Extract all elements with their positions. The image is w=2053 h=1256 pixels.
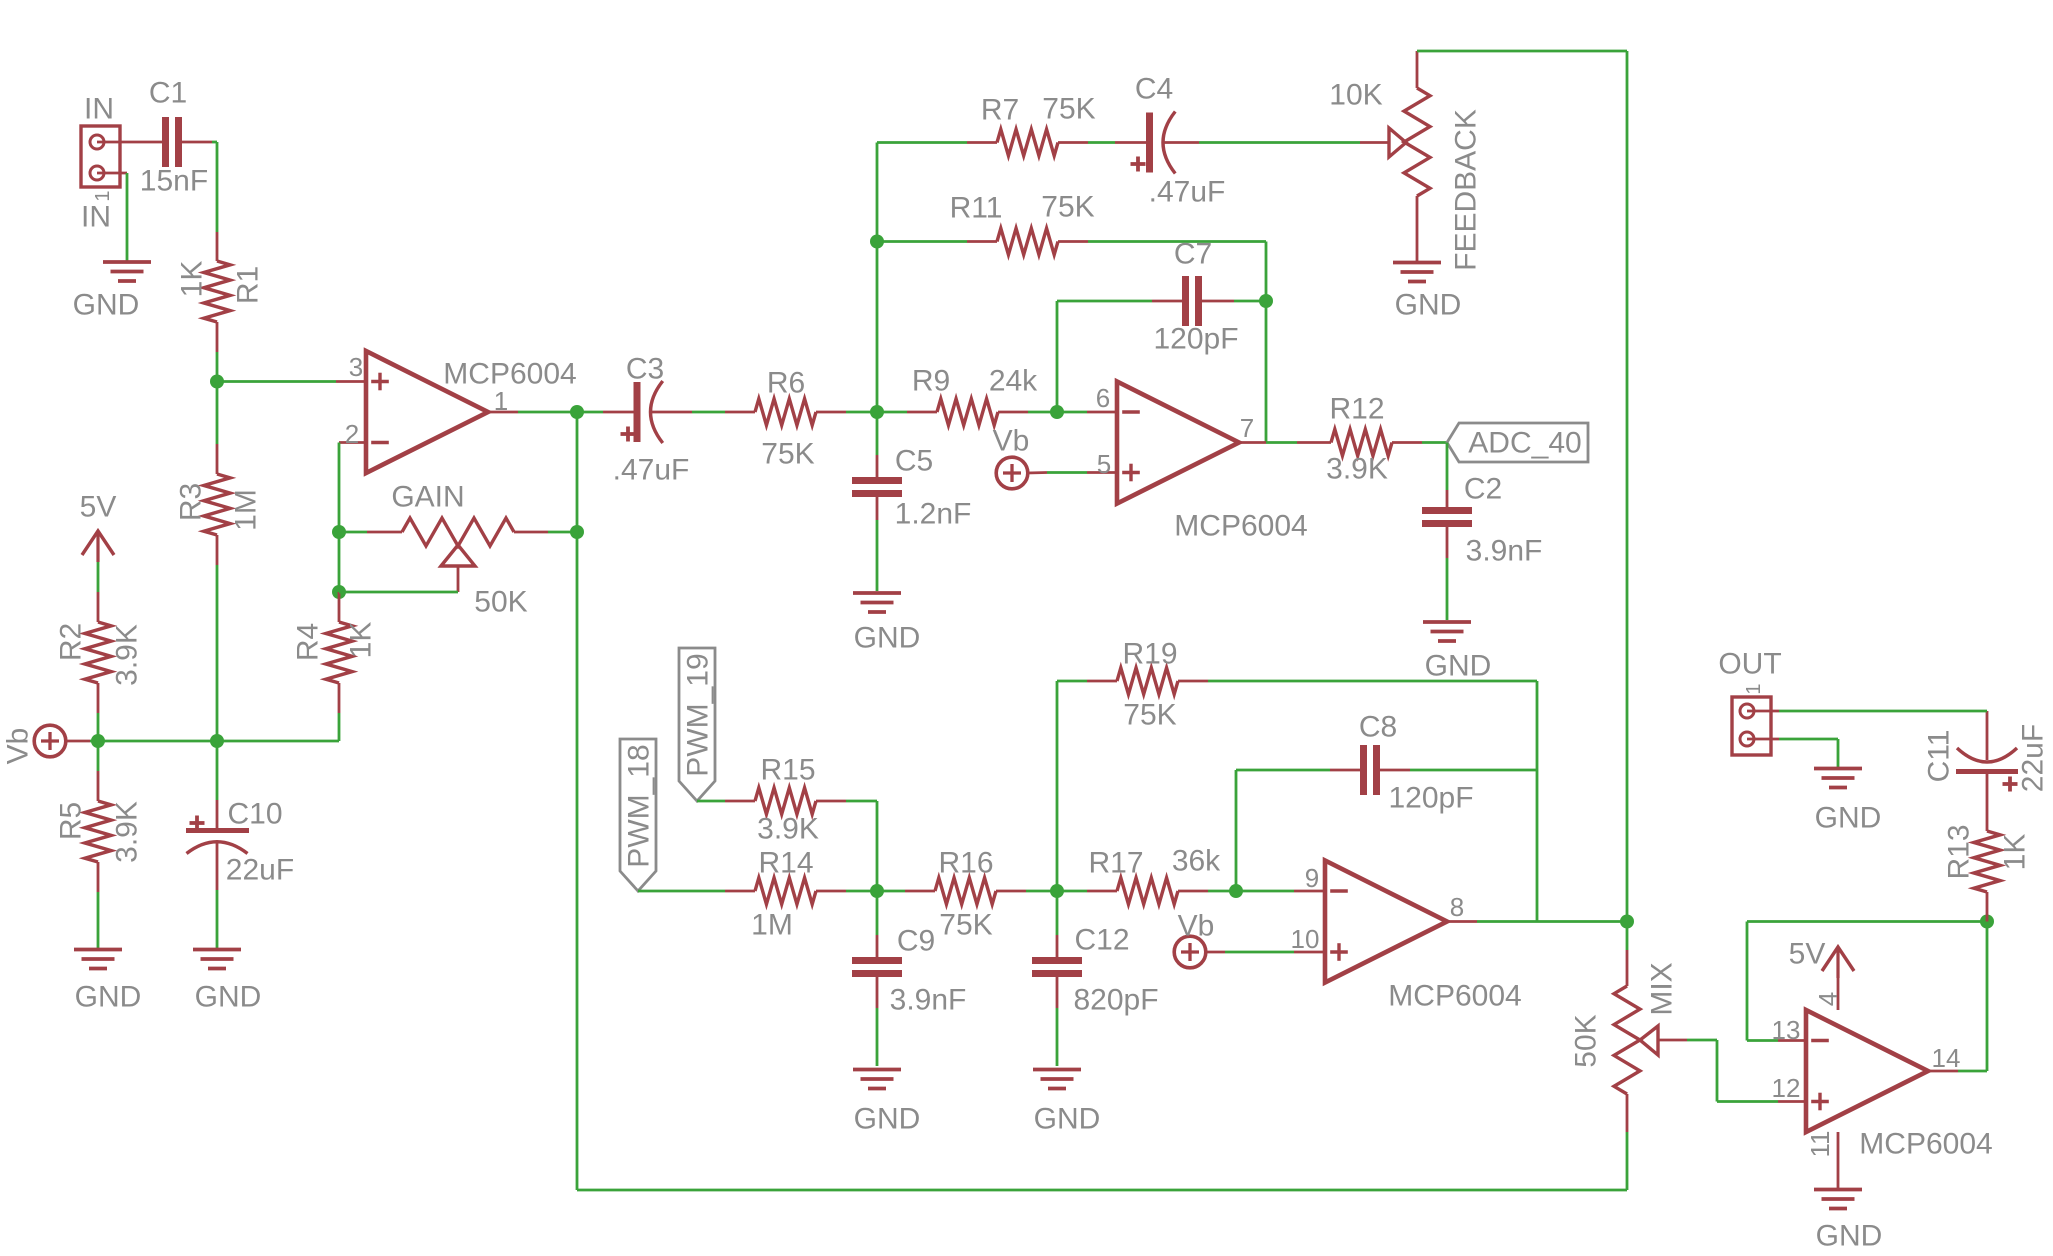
ground under 10K pot — [1393, 263, 1461, 322]
wire pin14 out — [1958, 922, 1987, 1072]
ground under OUT — [1814, 769, 1881, 835]
wire — [1779, 710, 1987, 713]
svg-text:GAIN: GAIN — [391, 481, 464, 514]
ground under C2 — [1423, 622, 1491, 683]
svg-text:GND: GND — [1395, 289, 1462, 322]
wire — [1536, 681, 1539, 922]
svg-text:3.9K: 3.9K — [111, 801, 144, 863]
capacitor C7 — [1057, 238, 1266, 356]
svg-text:1K: 1K — [345, 622, 378, 659]
capacitor C4 — [1088, 73, 1225, 209]
node junction — [210, 734, 224, 748]
net flag ADC_40 — [1447, 423, 1588, 462]
supply 5V at pin4 — [1789, 938, 1854, 1011]
svg-text:5V: 5V — [1789, 938, 1826, 971]
svg-text:C3: C3 — [626, 353, 664, 386]
resistor R16 — [877, 847, 1057, 942]
wire — [877, 240, 967, 243]
svg-text:MCP6004: MCP6004 — [443, 358, 576, 391]
resistor R13 — [1943, 773, 2032, 922]
svg-text:12: 12 — [1772, 1073, 1801, 1103]
svg-text:GND: GND — [73, 289, 140, 322]
supply Vb left — [2, 725, 91, 764]
svg-text:GND: GND — [1816, 1220, 1883, 1253]
svg-text:C4: C4 — [1135, 73, 1173, 106]
node junction — [1620, 915, 1634, 929]
svg-text:R2: R2 — [55, 623, 88, 661]
supply 5V — [80, 491, 117, 593]
svg-text:R5: R5 — [55, 802, 88, 840]
svg-text:ADC_40: ADC_40 — [1468, 427, 1581, 460]
svg-text:C11: C11 — [1923, 730, 1956, 783]
svg-text:C7: C7 — [1174, 238, 1212, 271]
connector OUT (J2) — [1718, 648, 1781, 756]
wire long left vertical — [576, 412, 579, 1190]
node junction — [1050, 884, 1064, 898]
supply Vb at pin5 — [993, 425, 1087, 489]
wire opamp1 out — [518, 411, 577, 414]
wire pin6 — [1057, 411, 1087, 414]
svg-text:R3: R3 — [175, 483, 208, 521]
svg-text:C8: C8 — [1359, 711, 1397, 744]
svg-text:.47uF: .47uF — [1149, 176, 1226, 209]
resistor R15 — [697, 754, 877, 892]
svg-text:IN: IN — [81, 201, 111, 234]
svg-text:R11: R11 — [950, 192, 1003, 225]
wire — [216, 352, 219, 382]
svg-text:GND: GND — [1034, 1103, 1101, 1136]
wire — [846, 411, 877, 414]
svg-text:C9: C9 — [897, 925, 935, 958]
svg-text:75K: 75K — [1042, 93, 1095, 126]
wire — [1422, 441, 1447, 444]
svg-text:C10: C10 — [227, 798, 282, 831]
capacitor C9 — [852, 891, 966, 1066]
op-amp U1C MCP6004 — [1291, 861, 1522, 1013]
svg-text:FEEDBACK: FEEDBACK — [1450, 109, 1483, 271]
svg-text:GND: GND — [75, 981, 142, 1014]
wire bottom — [577, 1189, 1627, 1192]
svg-text:Vb: Vb — [1178, 910, 1215, 943]
svg-text:8: 8 — [1450, 892, 1464, 922]
resistor R2 — [55, 592, 144, 713]
wire — [1266, 441, 1297, 444]
svg-text:75K: 75K — [1041, 191, 1094, 224]
ground under IN — [73, 173, 151, 322]
capacitor C10 — [186, 741, 294, 890]
svg-text:R14: R14 — [758, 847, 813, 880]
potentiometer FEEDBACK 10K — [1329, 51, 1482, 271]
svg-text:Vb: Vb — [2, 728, 35, 765]
wire pin3 — [217, 380, 336, 383]
svg-text:75K: 75K — [1123, 699, 1176, 732]
resistor R9 — [877, 365, 1057, 426]
ground under C9 — [853, 1070, 920, 1136]
svg-text:6: 6 — [1096, 383, 1110, 413]
wire — [1477, 920, 1627, 923]
potentiometer MIX 50K — [1570, 922, 1688, 1191]
resistor R14 — [638, 847, 877, 942]
ground under C5 — [853, 593, 920, 655]
wire — [216, 565, 219, 741]
svg-text:R12: R12 — [1329, 393, 1384, 426]
wire — [1088, 242, 1266, 302]
svg-text:R6: R6 — [767, 367, 805, 400]
wire — [692, 411, 725, 414]
svg-text:C2: C2 — [1464, 473, 1502, 506]
svg-text:1K: 1K — [1999, 834, 2032, 871]
svg-text:75K: 75K — [939, 909, 992, 942]
svg-text:14: 14 — [1932, 1043, 1961, 1073]
svg-text:GND: GND — [854, 622, 921, 655]
node junction — [332, 525, 346, 539]
svg-text:1: 1 — [92, 190, 114, 201]
svg-text:R13: R13 — [1943, 824, 1976, 879]
resistor R5 — [55, 771, 144, 892]
op-amp U1D MCP6004 — [1772, 1010, 1993, 1161]
resistor R19 — [1057, 638, 1537, 892]
svg-text:PWM_18: PWM_18 — [623, 744, 656, 867]
svg-text:IN: IN — [84, 93, 114, 126]
capacitor C5 — [852, 412, 971, 591]
svg-text:1M: 1M — [230, 489, 263, 531]
svg-text:2: 2 — [345, 419, 359, 449]
ground under R5 — [74, 950, 141, 1014]
op-amp U1B MCP6004 — [1087, 382, 1308, 543]
svg-text:50K: 50K — [1570, 1014, 1603, 1067]
svg-text:11: 11 — [1805, 1131, 1835, 1158]
svg-text:3.9K: 3.9K — [757, 813, 819, 846]
wire — [338, 532, 341, 592]
svg-text:1.2nF: 1.2nF — [895, 498, 972, 531]
svg-text:3.9nF: 3.9nF — [890, 984, 967, 1017]
svg-text:1M: 1M — [751, 909, 793, 942]
node junction — [210, 375, 224, 389]
wire — [338, 713, 341, 741]
wire feedback top — [1417, 51, 1627, 922]
wire — [338, 443, 341, 533]
svg-text:1: 1 — [494, 386, 508, 416]
svg-text:50K: 50K — [474, 586, 527, 619]
ground pin11 — [1805, 1131, 1882, 1253]
svg-text:R15: R15 — [760, 754, 815, 787]
node junction — [1980, 915, 1994, 929]
wire pin13 loop — [1747, 922, 1987, 1041]
node junction — [332, 585, 346, 599]
supply Vb at pin10 — [1174, 910, 1294, 968]
capacitor C8 — [1236, 711, 1537, 892]
wire Vb row — [90, 740, 339, 743]
svg-text:9: 9 — [1305, 863, 1319, 893]
resistor R17 — [1057, 845, 1236, 905]
svg-text:5V: 5V — [80, 491, 117, 524]
svg-text:R4: R4 — [292, 623, 325, 661]
svg-text:GND: GND — [854, 1103, 921, 1136]
svg-text:15nF: 15nF — [140, 165, 208, 198]
svg-text:GND: GND — [1815, 802, 1882, 835]
svg-text:820pF: 820pF — [1073, 984, 1158, 1017]
svg-text:R1: R1 — [232, 266, 265, 304]
node junction — [870, 884, 884, 898]
svg-text:120pF: 120pF — [1388, 782, 1473, 815]
svg-text:GND: GND — [195, 981, 262, 1014]
net flag PWM_19 — [679, 648, 715, 801]
svg-text:3.9K: 3.9K — [111, 624, 144, 686]
resistor R12 — [1297, 393, 1422, 486]
svg-text:1: 1 — [1743, 683, 1765, 694]
capacitor C3 — [577, 353, 692, 487]
ground under C10 — [193, 950, 261, 1014]
svg-text:Vb: Vb — [993, 425, 1030, 458]
svg-text:1K: 1K — [176, 261, 209, 298]
svg-text:C5: C5 — [895, 445, 933, 478]
svg-text:C12: C12 — [1074, 924, 1129, 957]
svg-text:GND: GND — [1425, 650, 1492, 683]
svg-text:10: 10 — [1291, 924, 1320, 954]
wire wiper to pin12 — [1687, 1040, 1778, 1102]
wire — [1265, 301, 1268, 443]
svg-text:R7: R7 — [981, 94, 1019, 127]
svg-text:PWM_19: PWM_19 — [682, 653, 715, 776]
capacitor C2 — [1422, 443, 1542, 621]
svg-text:R17: R17 — [1088, 847, 1143, 880]
net flag PWM_18 — [620, 739, 656, 891]
wire — [97, 741, 100, 948]
svg-text:4: 4 — [1813, 992, 1843, 1006]
wire pin9 — [1236, 890, 1294, 893]
resistor R11 — [950, 191, 1095, 255]
svg-text:3.9nF: 3.9nF — [1466, 535, 1543, 568]
wire — [1056, 301, 1059, 412]
capacitor C11 — [1923, 711, 2050, 792]
svg-text:36k: 36k — [1172, 845, 1221, 878]
resistor R6 — [725, 367, 846, 471]
svg-text:10K: 10K — [1329, 79, 1382, 112]
node junction — [870, 405, 884, 419]
svg-text:R19: R19 — [1122, 638, 1177, 671]
svg-text:MCP6004: MCP6004 — [1174, 510, 1307, 543]
wire — [97, 713, 100, 741]
wire — [1779, 739, 1838, 767]
resistor R4 — [292, 592, 378, 713]
svg-text:24k: 24k — [989, 365, 1038, 398]
node junction — [1050, 405, 1064, 419]
resistor R7 — [967, 93, 1096, 156]
node junction — [870, 235, 884, 249]
svg-text:MCP6004: MCP6004 — [1859, 1128, 1992, 1161]
resistor R1 — [176, 232, 265, 352]
svg-text:C1: C1 — [149, 77, 187, 110]
svg-text:R16: R16 — [938, 847, 993, 880]
resistor R3 — [175, 444, 263, 565]
wire mid vertical — [876, 143, 879, 413]
svg-text:75K: 75K — [761, 438, 814, 471]
svg-text:OUT: OUT — [1718, 648, 1781, 681]
connector IN (J1) — [81, 93, 127, 234]
op-amp U1A MCP6004 — [336, 351, 577, 473]
svg-text:5: 5 — [1097, 449, 1111, 479]
ground under C12 — [1033, 1070, 1100, 1136]
svg-text:22uF: 22uF — [226, 854, 294, 887]
svg-text:.47uF: .47uF — [613, 454, 690, 487]
node junction — [570, 525, 584, 539]
wire — [216, 890, 219, 948]
wire — [216, 382, 219, 445]
svg-text:R9: R9 — [912, 365, 950, 398]
node junction — [1259, 294, 1273, 308]
svg-text:3.9K: 3.9K — [1326, 453, 1388, 486]
capacitor C12 — [1032, 891, 1159, 1066]
potentiometer GAIN 50K — [339, 481, 577, 619]
capacitor C1 — [127, 77, 212, 198]
wire — [877, 141, 967, 144]
node junction — [91, 734, 105, 748]
node junction — [1229, 884, 1243, 898]
svg-text:120pF: 120pF — [1153, 323, 1238, 356]
svg-text:7: 7 — [1240, 413, 1254, 443]
wire — [212, 142, 217, 232]
svg-text:MCP6004: MCP6004 — [1388, 980, 1521, 1013]
wire — [1199, 141, 1360, 144]
svg-text:22uF: 22uF — [2017, 724, 2050, 792]
svg-text:MIX: MIX — [1646, 962, 1679, 1015]
svg-text:3: 3 — [349, 352, 363, 382]
node junction — [570, 405, 584, 419]
